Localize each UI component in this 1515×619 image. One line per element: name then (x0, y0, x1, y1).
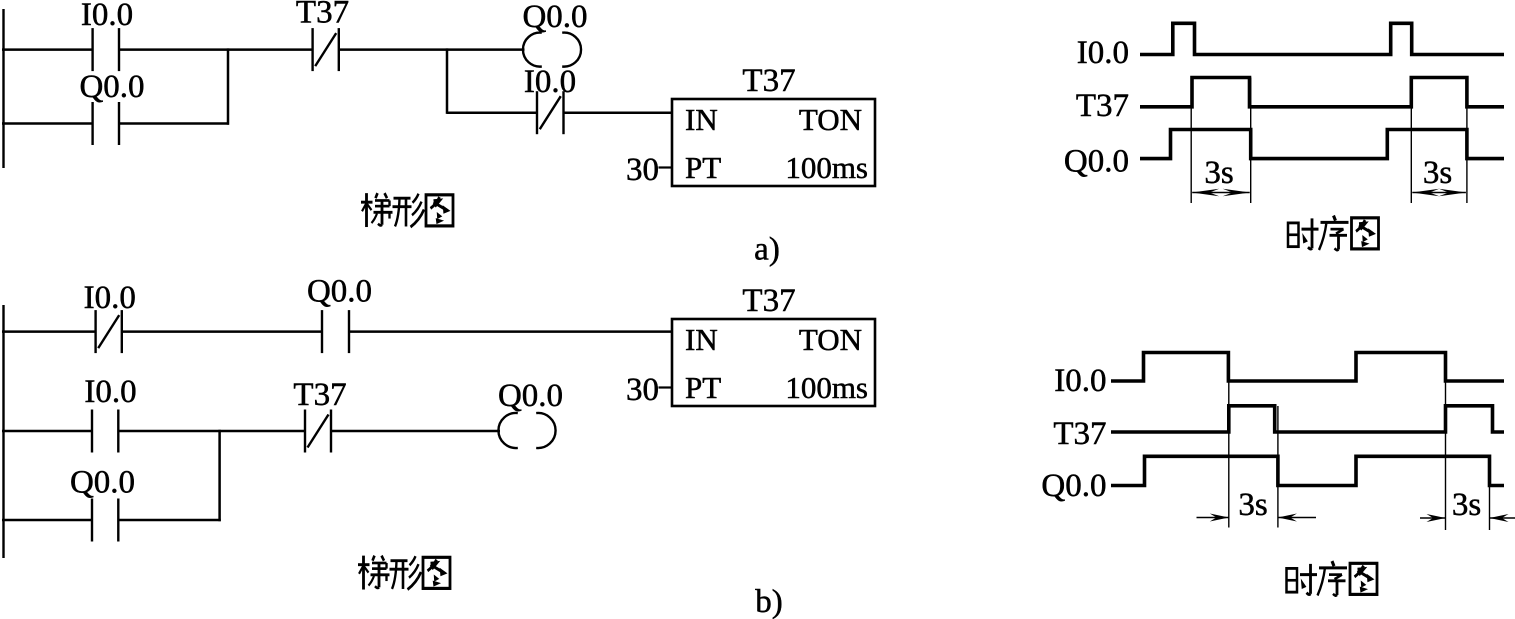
wire junction to I0.0 NC contact (a) (447, 111, 536, 114)
label 时序图 (timing diagram a) (1288, 218, 1319, 249)
glyph 图 (426, 195, 453, 226)
svg-text:30: 30 (626, 372, 659, 408)
svg-text:Q0.0: Q0.0 (522, 0, 587, 35)
waveform T37 (timing b) (1111, 406, 1504, 432)
svg-text:I0.0: I0.0 (84, 280, 136, 316)
waveform Q0.0 (timing a) (1140, 130, 1504, 159)
wire rail to I0.0 contact (rung b2) (2, 430, 91, 433)
svg-text:T37: T37 (742, 63, 795, 99)
wire Q0.0 contact to junction (120, 122, 229, 125)
contact I0.0 (NO) (91, 28, 93, 71)
glyph 图 (423, 557, 450, 588)
svg-text:T37: T37 (293, 377, 346, 413)
svg-text:Q0.0: Q0.0 (498, 378, 563, 414)
contact T37 (NC) (311, 28, 313, 71)
wire 30 to PT pin (a) (659, 166, 674, 168)
svg-text:3s: 3s (1238, 487, 1267, 523)
arrow into line1 (timing b) (1197, 517, 1229, 519)
wire I0.0 to T37 contact (120, 48, 312, 51)
wire rail to I0.0 NC contact (rung b1) (2, 330, 95, 333)
contact T37 (NC, rung b2) (304, 410, 306, 453)
svg-text:Q0.0: Q0.0 (1041, 468, 1106, 504)
contact I0.0 (NC, timer branch a) (536, 91, 538, 134)
svg-text:Q0.0: Q0.0 (307, 274, 372, 310)
dimension line 1 (timing a) (1190, 78, 1192, 204)
wire rail to Q0.0 contact (branch a) (2, 122, 92, 125)
svg-text:IN: IN (685, 322, 718, 357)
coil Q0.0 (b) (498, 413, 517, 448)
svg-text:T37: T37 (742, 283, 795, 319)
wire I0.0 NC to timer box a (565, 111, 673, 114)
glyph 图 (1352, 218, 1379, 249)
dimension line 1 (timing b) (1228, 353, 1230, 528)
label 梯形图 (ladder diagram b) (358, 556, 390, 590)
arrow 3s (timing a, second) (1412, 192, 1466, 194)
dimension line 2 (timing b) (1277, 406, 1279, 528)
glyph 形 (394, 197, 411, 200)
svg-text:3s: 3s (1204, 155, 1233, 191)
wire I0.0 to T37 NC contact (b2) (120, 430, 305, 433)
wire 30 to PT pin (b) (659, 386, 674, 388)
branch junction vertical (rung a1) (227, 48, 230, 124)
label 时序图 (timing diagram b) (1287, 564, 1318, 595)
svg-text:Q0.0: Q0.0 (79, 69, 144, 105)
branch junction vertical to timer (a) (446, 48, 449, 114)
glyph 形 (391, 559, 408, 562)
svg-text:T37: T37 (1053, 416, 1106, 452)
svg-text:100ms: 100ms (785, 150, 868, 185)
svg-text:TON: TON (799, 322, 862, 357)
wire T37 NC to coil Q0.0 (b2) (332, 430, 500, 433)
branch junction vertical (b2) (218, 430, 221, 521)
dimension line 3 (timing a) (1410, 78, 1412, 204)
svg-text:I0.0: I0.0 (1077, 35, 1129, 71)
svg-text:PT: PT (685, 150, 721, 185)
contact Q0.0 (NO, rung b1) (321, 310, 323, 353)
svg-text:3s: 3s (1452, 487, 1481, 523)
svg-text:IN: IN (685, 102, 718, 137)
svg-text:T37: T37 (296, 0, 349, 31)
glyph 梯 (362, 556, 365, 590)
svg-text:30: 30 (626, 152, 659, 188)
arrow into line4 (timing b) (1490, 517, 1515, 519)
contact Q0.0 (NO, branch) (91, 102, 93, 145)
waveform I0.0 (timing b) (1111, 353, 1504, 382)
svg-text:I0.0: I0.0 (84, 374, 136, 410)
left power rail (ladder b) (2, 305, 4, 558)
svg-text:I0.0: I0.0 (1054, 363, 1106, 399)
contact Q0.0 (NO, branch b) (91, 499, 93, 542)
svg-text:I0.0: I0.0 (81, 0, 133, 33)
left power rail (ladder a) (2, 9, 4, 168)
svg-text:TON: TON (799, 102, 862, 137)
wire rail to I0.0 contact (rung a1) (2, 48, 92, 51)
waveform I0.0 (timing a) (1140, 23, 1504, 54)
svg-text:Q0.0: Q0.0 (1064, 144, 1129, 180)
contact I0.0 (NC, rung b1) (94, 310, 96, 353)
wire I0.0 NC to Q0.0 contact (b1) (123, 330, 321, 333)
glyph 时 (1288, 223, 1299, 247)
arrow into line2 (timing b) (1278, 517, 1316, 519)
wire T37 to coil Q0.0 (340, 48, 525, 51)
svg-text:b): b) (755, 584, 783, 619)
svg-text:100ms: 100ms (785, 370, 868, 405)
svg-text:Q0.0: Q0.0 (70, 465, 135, 501)
glyph 序 (1334, 216, 1336, 221)
glyph 序 (1332, 561, 1334, 566)
wire rail to Q0.0 contact (branch b) (2, 519, 91, 522)
svg-text:3s: 3s (1423, 155, 1452, 191)
arrow 3s (timing a, first) (1192, 192, 1250, 194)
svg-text:I0.0: I0.0 (524, 64, 576, 100)
dimension line 4 (timing a) (1466, 78, 1468, 204)
dimension line 4 (timing b) (1489, 456, 1491, 530)
timer box T37 (b): IN TON / PT 100ms (672, 319, 875, 406)
label 梯形图 (ladder diagram a) (361, 193, 393, 227)
contact I0.0 (NO, rung b2) (91, 410, 93, 453)
waveform Q0.0 (timing b) (1111, 456, 1504, 485)
glyph 图 (1350, 563, 1377, 594)
arrow into line3 (timing b) (1420, 517, 1446, 519)
waveform T37 (timing a) (1140, 78, 1504, 107)
glyph 时 (1287, 568, 1298, 592)
coil Q0.0 (523, 33, 542, 67)
wire Q0.0 contact to timer box b (350, 330, 672, 333)
svg-text:PT: PT (685, 370, 721, 405)
svg-text:a): a) (754, 232, 780, 268)
svg-text:T37: T37 (1076, 88, 1129, 124)
dimension line 3 (timing b) (1445, 353, 1447, 531)
glyph 梯 (365, 193, 368, 227)
wire Q0.0 contact to junction (b) (120, 519, 221, 522)
dimension line 2 (timing a) (1250, 78, 1252, 204)
timer box T37 (a): IN TON / PT 100ms (672, 99, 875, 186)
